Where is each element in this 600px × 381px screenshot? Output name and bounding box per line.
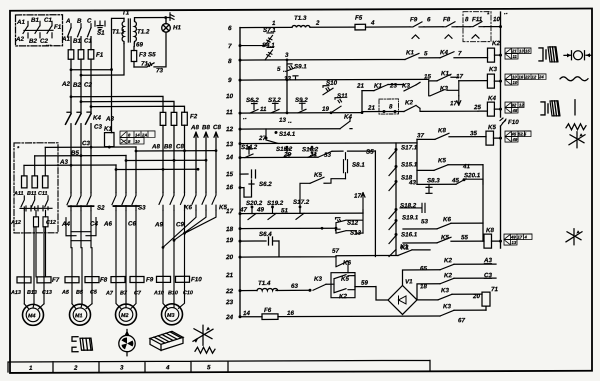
svg-text:67: 67 (458, 317, 465, 324)
svg-text:S19.2: S19.2 (267, 200, 284, 207)
svg-text:F6: F6 (264, 307, 272, 314)
svg-text:K3: K3 (402, 82, 410, 89)
svg-text:S6.4: S6.4 (259, 231, 272, 238)
svg-text:13: 13 (512, 240, 517, 245)
svg-text:F3: F3 (139, 51, 147, 58)
svg-text:S6.2: S6.2 (246, 97, 259, 104)
row 21-23 wire upper (362, 82, 420, 90)
svg-text:*: * (487, 12, 490, 18)
pump icon (119, 329, 135, 355)
svg-text:S4.1: S4.1 (262, 42, 275, 49)
junction dots phases (70, 68, 113, 108)
svg-text:S2: S2 (97, 205, 105, 212)
svg-text:K4: K4 (93, 115, 101, 122)
svg-text:S1: S1 (97, 30, 105, 37)
pushbutton S19.2 (268, 207, 276, 219)
svg-text:8: 8 (389, 103, 393, 110)
node 3 vertical (286, 60, 288, 113)
svg-text:71: 71 (491, 286, 498, 293)
svg-text:S14.2: S14.2 (241, 144, 258, 151)
svg-text:B1: B1 (73, 38, 81, 45)
svg-text:19: 19 (226, 237, 234, 244)
svg-text:K5: K5 (488, 124, 496, 131)
svg-text:C2: C2 (84, 82, 92, 89)
svg-text:K5: K5 (441, 234, 449, 241)
contact K4 row8 (440, 52, 454, 58)
svg-text:K1: K1 (406, 49, 414, 56)
aux table K5 (505, 131, 531, 142)
svg-text:17: 17 (456, 73, 463, 80)
contactor contacts M3 branch K6 (159, 192, 185, 210)
svg-text:..: .. (504, 9, 508, 16)
svg-text:A7: A7 (105, 291, 114, 297)
pushbutton S6.2 (250, 101, 258, 114)
svg-text:K2: K2 (339, 293, 347, 300)
svg-text:T1.2: T1.2 (137, 28, 150, 35)
M1 fuse pair F8 (65, 248, 99, 304)
K5 wire 55 to K8 (403, 241, 484, 243)
svg-text:15: 15 (424, 73, 431, 80)
svg-text:A1: A1 (16, 19, 25, 26)
K5 wire 41 (417, 165, 483, 242)
input terminals A B C (71, 24, 91, 28)
svg-text:63: 63 (291, 283, 298, 290)
outgoing arrows A8 B8 C8 (116, 132, 218, 192)
wire 20 to relay 71 (417, 294, 482, 300)
svg-text:10: 10 (135, 139, 140, 144)
svg-text:C6: C6 (128, 220, 136, 227)
svg-text:K2: K2 (444, 257, 452, 264)
unit 1 fuse labels (13, 191, 47, 197)
clamp icon 1 (539, 47, 558, 62)
switch S20.1 (456, 179, 483, 185)
svg-text:53: 53 (421, 218, 428, 225)
row 9 wire (240, 75, 487, 81)
svg-text:K3: K3 (443, 303, 451, 310)
svg-text:51: 51 (281, 207, 288, 214)
svg-text:*: * (17, 146, 20, 152)
fuses F1 (68, 50, 94, 60)
fuse F5 (355, 24, 366, 30)
svg-text:17: 17 (354, 193, 361, 200)
svg-text:2: 2 (73, 365, 78, 372)
contact K3 row9 parallel (429, 81, 459, 96)
svg-text:S6.2: S6.2 (259, 181, 272, 188)
svg-text:B8: B8 (164, 143, 172, 150)
K6 wire 53 (403, 223, 483, 229)
svg-text:49: 49 (510, 235, 516, 240)
svg-text:13: 13 (279, 117, 286, 124)
selector chain vertical (395, 143, 397, 255)
unit 1 fuses (22, 176, 49, 188)
connector X1 labels (15, 17, 62, 48)
switch S12 (336, 210, 364, 234)
row 12 wire (240, 128, 352, 130)
svg-text:K6: K6 (184, 204, 192, 211)
svg-text:A9: A9 (154, 221, 163, 228)
svg-text:4: 4 (370, 20, 375, 27)
wavy line (560, 77, 588, 81)
contact K3 row22 (313, 284, 326, 290)
svg-text:T1: T1 (122, 10, 130, 17)
switch S4.1 (265, 47, 274, 60)
svg-text:S9.2: S9.2 (295, 97, 308, 104)
switch S7.1 (240, 33, 274, 46)
svg-text:B10: B10 (168, 290, 178, 296)
row 19 wire (240, 237, 279, 257)
contact K2 (404, 105, 478, 111)
svg-text:C13: C13 (42, 290, 52, 296)
svg-text:19: 19 (322, 106, 329, 113)
pushbutton S14.2 (245, 146, 253, 158)
sensor S18.2 plunger (400, 203, 425, 212)
contact K3 (404, 85, 416, 91)
svg-text:8: 8 (128, 139, 131, 144)
svg-text:K4: K4 (488, 95, 496, 102)
svg-text:6: 6 (228, 25, 232, 32)
contactor K1 main contacts (66, 112, 92, 124)
aux table K2 (505, 48, 531, 59)
svg-text:31: 31 (310, 151, 317, 158)
svg-text:K6: K6 (343, 260, 351, 267)
clamp icon 2 (541, 101, 560, 116)
svg-text:S8.3: S8.3 (427, 177, 440, 184)
switch S11 (331, 98, 342, 113)
bus A3 (24, 164, 116, 166)
aux table K3 (505, 74, 546, 85)
svg-text:F7: F7 (52, 277, 60, 284)
K1 contact table (120, 131, 155, 144)
svg-text:37: 37 (417, 132, 424, 139)
svg-text:17: 17 (450, 100, 457, 107)
svg-text:8: 8 (128, 132, 131, 137)
svg-text:17: 17 (226, 208, 234, 215)
svg-text:...: ... (46, 41, 52, 48)
svg-text:S14.1: S14.1 (279, 131, 296, 138)
svg-text:B: B (77, 18, 82, 25)
svg-text:A3: A3 (59, 159, 68, 166)
svg-text:A12: A12 (10, 220, 21, 226)
svg-text:B7: B7 (120, 291, 128, 297)
right branch vertical (416, 139, 418, 184)
thermal contact F11 dashed unit (463, 12, 491, 42)
K5 bypass wire (300, 177, 346, 213)
T1.2 bottom wire (133, 43, 135, 51)
svg-text:A8: A8 (151, 143, 160, 150)
svg-text:M4: M4 (28, 313, 35, 319)
spindle icon (564, 51, 591, 60)
relay coil K4 (478, 102, 501, 116)
contact S19.1 (389, 221, 396, 229)
rail row numbers (225, 25, 234, 321)
svg-text:S5: S5 (366, 149, 374, 156)
fuses F2 (160, 112, 187, 125)
phase wire C (90, 37, 92, 50)
row 11 wire (240, 112, 362, 114)
svg-text:A3: A3 (483, 257, 492, 264)
bus junction dots (70, 146, 111, 167)
motor M2 (116, 276, 137, 325)
svg-text:15: 15 (525, 48, 530, 53)
svg-text:22: 22 (524, 74, 530, 79)
svg-text:S17.1: S17.1 (401, 144, 418, 151)
svg-text:A8: A8 (190, 124, 199, 131)
svg-text:69: 69 (136, 41, 143, 48)
svg-text:3: 3 (120, 365, 124, 372)
svg-text:B2: B2 (73, 82, 81, 89)
svg-text:9: 9 (228, 77, 232, 84)
svg-text:S7.1: S7.1 (263, 27, 276, 34)
svg-text:C1: C1 (44, 17, 52, 24)
svg-text:S13: S13 (350, 230, 362, 237)
svg-text:K1: K1 (401, 244, 409, 251)
row 17 wire (240, 212, 363, 214)
phase wire A (70, 37, 72, 50)
svg-text:K3: K3 (489, 66, 497, 73)
relay 71 (482, 292, 490, 310)
contact S17.1 (389, 150, 396, 158)
transformer T1 core (128, 19, 130, 42)
svg-text:K8: K8 (438, 127, 446, 134)
svg-text:13: 13 (519, 48, 524, 53)
switch S13 (336, 228, 364, 233)
fuse F6 (262, 314, 278, 320)
relay coil K3 (487, 74, 500, 88)
svg-text:F9: F9 (410, 16, 418, 23)
arrow 17 up (361, 193, 365, 214)
tool icon (72, 337, 93, 352)
svg-text:B1: B1 (31, 17, 39, 24)
pushbutton S7.2 (271, 100, 279, 113)
node labels A2 B2 C2 (61, 81, 92, 89)
svg-text:K4: K4 (440, 49, 448, 56)
chassis symbol (170, 13, 174, 21)
contact K1 row9 (437, 74, 451, 81)
row 6 wire (240, 27, 501, 28)
winding T1.4 (257, 288, 278, 290)
contact K1 chain (389, 249, 396, 256)
unit 1 box (dash-dot) (14, 143, 58, 233)
svg-text:F1: F1 (96, 52, 104, 59)
svg-text:S10: S10 (326, 80, 338, 87)
svg-text:S16.1: S16.1 (401, 231, 418, 238)
svg-text:K3: K3 (440, 85, 448, 92)
T1.2 top wire to lamp (135, 18, 171, 21)
svg-text:K5: K5 (341, 276, 349, 283)
svg-text:10: 10 (493, 16, 500, 23)
T1.1 return wire to B-phase (81, 44, 124, 76)
bus B5 (35, 155, 126, 157)
contact group box K5 K2 (326, 273, 355, 298)
bus fuse F10 (500, 118, 506, 126)
unit 1 disconnect switch (20, 196, 52, 211)
contactor contacts M2 branch (112, 192, 139, 210)
svg-text:K5: K5 (314, 172, 322, 179)
svg-text:M2: M2 (121, 313, 128, 319)
svg-text:41: 41 (462, 163, 470, 170)
svg-text:A13: A13 (10, 290, 21, 296)
svg-text:A2: A2 (15, 36, 24, 43)
svg-text:10: 10 (512, 75, 517, 80)
svg-text:13: 13 (226, 141, 234, 148)
row 15 stub (240, 170, 256, 184)
svg-text:18: 18 (420, 283, 427, 290)
svg-text:49: 49 (256, 206, 264, 213)
svg-text:M1: M1 (75, 313, 82, 319)
junction lamp top (164, 16, 167, 19)
node 21 vertical (361, 91, 363, 113)
svg-text:K3: K3 (314, 276, 322, 283)
svg-text:S19.1: S19.1 (402, 214, 419, 221)
row 14 wire (240, 151, 371, 158)
svg-text:M3: M3 (167, 313, 174, 319)
contact S18 (389, 182, 396, 190)
svg-text:14: 14 (226, 154, 234, 161)
svg-text:1: 1 (29, 365, 33, 372)
svg-text:48: 48 (512, 108, 518, 113)
heater icon (150, 331, 183, 350)
ladder left rail (239, 28, 241, 317)
svg-text:22: 22 (225, 288, 234, 295)
wire 59 to bridge (355, 287, 388, 301)
svg-text:K1: K1 (104, 126, 112, 133)
switch S1 (68, 28, 92, 37)
row 22 wire (240, 289, 310, 291)
svg-text:B8: B8 (202, 124, 210, 131)
svg-text:73: 73 (156, 67, 163, 74)
svg-text:47: 47 (239, 207, 247, 214)
svg-text:A5: A5 (61, 290, 70, 296)
motor M4 (23, 304, 45, 326)
svg-text:K2: K2 (444, 272, 452, 279)
svg-text:12: 12 (532, 74, 537, 79)
winding T1.3 (292, 25, 310, 27)
arrow 17 down (457, 96, 461, 106)
svg-text:C7: C7 (134, 290, 142, 296)
svg-text:S8.1: S8.1 (352, 162, 365, 169)
svg-text:45: 45 (511, 132, 517, 137)
unit 1 heater elements (24, 210, 48, 277)
pushbutton S9.2 (298, 100, 306, 113)
svg-text:11: 11 (513, 54, 518, 59)
svg-text:55: 55 (461, 234, 468, 241)
motor M3 (162, 276, 185, 325)
svg-text:F10: F10 (508, 119, 519, 126)
svg-text:15: 15 (226, 171, 234, 178)
svg-text:2: 2 (315, 20, 320, 27)
ground symbol (95, 21, 105, 30)
svg-text:13: 13 (284, 75, 291, 82)
motor wire labels (10, 289, 193, 297)
svg-text:20: 20 (472, 293, 480, 300)
svg-text:21: 21 (225, 272, 234, 279)
wires below F2 (163, 125, 185, 192)
sensor S8.1 (344, 153, 348, 179)
svg-text:16: 16 (226, 184, 234, 191)
S8.3 wire 45 (417, 183, 456, 185)
contactor contacts M1 branch (67, 193, 94, 211)
vertical bar icon (574, 100, 576, 115)
contact K8 row13 (435, 133, 449, 139)
svg-text:B13: B13 (27, 290, 37, 296)
transformer winding T1.1 (122, 18, 124, 43)
M1 crossover (66, 211, 96, 248)
right bus (500, 12, 502, 248)
svg-text:..: .. (243, 114, 247, 121)
svg-text:27: 27 (258, 135, 266, 142)
row 13 wire (240, 137, 486, 144)
resistor icon right (566, 124, 586, 130)
svg-text:A1: A1 (61, 36, 70, 43)
bridge top to A3 (403, 264, 497, 285)
svg-text:K5: K5 (438, 157, 446, 164)
svg-text:A11: A11 (13, 191, 23, 197)
svg-text:K6: K6 (443, 216, 451, 223)
svg-text:43: 43 (408, 179, 416, 186)
taps to F2 feeders (71, 96, 185, 112)
svg-text:11: 11 (226, 109, 233, 116)
bus C3 (45, 146, 136, 148)
svg-text:K1: K1 (441, 70, 449, 77)
svg-text:23: 23 (389, 82, 397, 89)
transformer winding T1.2 (135, 20, 137, 43)
svg-text:10: 10 (226, 93, 234, 100)
svg-text:3: 3 (285, 52, 289, 59)
bridge rectifier V1 (388, 285, 417, 314)
svg-text:A: A (65, 18, 71, 25)
svg-text:F8: F8 (100, 277, 108, 284)
contact K1 (374, 85, 388, 91)
svg-text:7: 7 (228, 43, 232, 50)
svg-text:A10: A10 (153, 290, 164, 296)
wire A-phase to transformer primary (71, 18, 124, 132)
S5 vertical (374, 151, 376, 257)
svg-text:C12: C12 (46, 220, 56, 226)
svg-text:C3: C3 (484, 272, 492, 279)
svg-text:17: 17 (518, 234, 523, 239)
svg-text:59: 59 (361, 280, 368, 287)
connector X1 poles (23, 21, 53, 38)
contact S15.1 (389, 167, 396, 175)
svg-text:21: 21 (367, 105, 375, 112)
title block numbers (29, 364, 211, 372)
switch S5 lamp (134, 32, 166, 67)
svg-text:65: 65 (420, 265, 427, 272)
svg-text:K8: K8 (486, 227, 494, 234)
switch S14.1 (266, 129, 278, 144)
star icon top (569, 132, 585, 148)
contact K6 to row21 box (336, 257, 348, 273)
svg-text:5: 5 (207, 364, 211, 371)
svg-text:S15.1: S15.1 (401, 161, 418, 168)
svg-text:..: .. (288, 118, 292, 125)
svg-text:S11: S11 (337, 93, 348, 100)
svg-text:C3: C3 (82, 140, 90, 147)
phase wire B (80, 37, 82, 50)
aux table K4 (505, 102, 524, 113)
svg-text:16: 16 (519, 74, 524, 79)
svg-text:T1.4: T1.4 (258, 280, 271, 287)
svg-text:6: 6 (427, 16, 431, 23)
relay coil K2 (488, 48, 501, 62)
svg-text:24: 24 (225, 314, 234, 321)
thermal contact F9 (410, 22, 424, 39)
svg-text:33: 33 (324, 152, 331, 159)
svg-text:25: 25 (473, 104, 481, 111)
svg-text:T1.3: T1.3 (294, 15, 307, 22)
row 24 wire (240, 310, 486, 317)
svg-text:A2: A2 (61, 81, 70, 88)
